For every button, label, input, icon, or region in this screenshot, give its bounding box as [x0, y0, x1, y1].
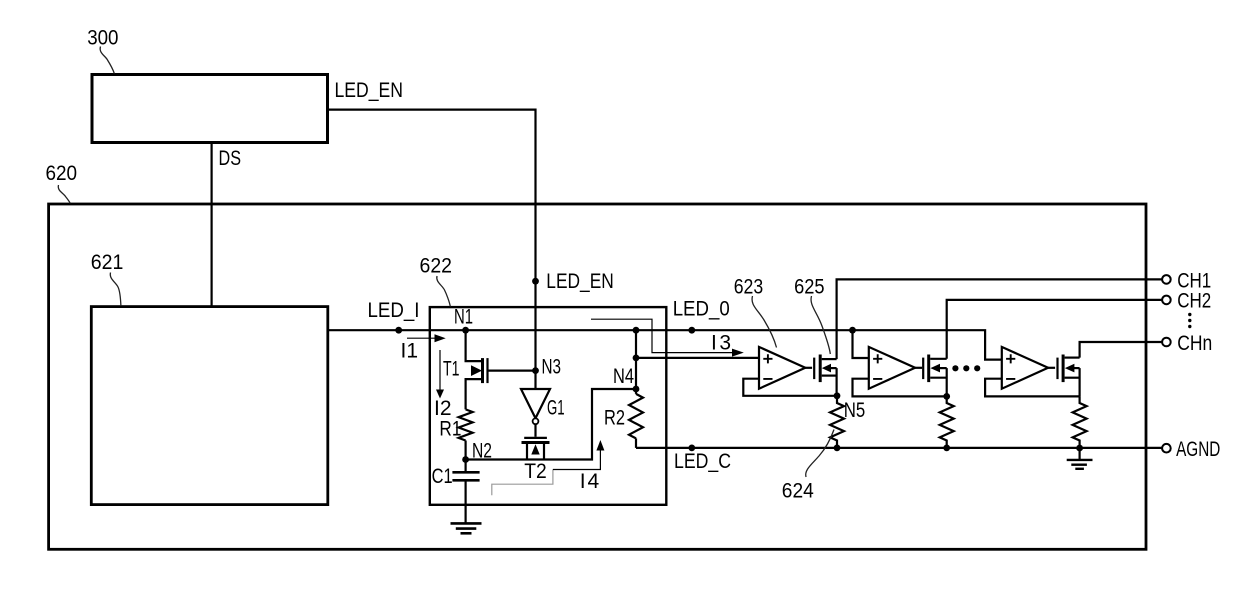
- node N1: [462, 327, 469, 334]
- wire R1 to N2: [465, 441, 467, 460]
- wire Q1 drain to CH1: [837, 279, 1163, 359]
- op-amp U2: [869, 347, 915, 389]
- svg-text:623: 623: [734, 276, 764, 299]
- leader line for 620: [58, 185, 70, 203]
- terminal CH1: [1162, 275, 1171, 284]
- wire U1 output to Q1 gate: [805, 367, 812, 369]
- node N3: [532, 367, 539, 374]
- wire LED_C / AGND rail: [636, 447, 1162, 449]
- terminal CH2: [1162, 296, 1171, 305]
- resistor R1: [459, 409, 473, 440]
- svg-text:I1: I1: [401, 340, 419, 363]
- svg-text:LED_C: LED_C: [674, 450, 731, 473]
- svg-text:CHn: CHn: [1177, 332, 1212, 355]
- wire LED_EN (300 right edge, right then down to G1 input): [328, 110, 536, 389]
- block 300: [92, 75, 328, 143]
- resistor R2: [629, 394, 643, 439]
- op-amp U1 (623): [759, 347, 805, 389]
- vertical ellipsis: [1188, 313, 1191, 316]
- node dot branch to op-amp U2: [849, 327, 856, 334]
- block 622: [430, 307, 667, 505]
- svg-text:R1: R1: [439, 417, 461, 440]
- block 621: [91, 307, 327, 505]
- svg-text:N4: N4: [613, 365, 634, 388]
- transistor T2: [524, 437, 547, 439]
- node dot resistor 624 to AGND rail: [834, 445, 841, 452]
- wire G1 output to T2 gate: [534, 424, 536, 437]
- svg-text:G1: G1: [547, 397, 565, 420]
- wire Qn source junction: [1078, 368, 1080, 396]
- ellipsis dots between stages: [952, 365, 958, 371]
- transistor Q2: [922, 358, 924, 380]
- svg-text:LED_0: LED_0: [673, 298, 730, 321]
- svg-text:622: 622: [420, 255, 453, 278]
- node dot plus-input branch: [633, 355, 640, 362]
- wire U1 feedback (minus input to N5): [743, 379, 837, 396]
- terminal CHn: [1162, 338, 1171, 347]
- wire N2 rail to N4: [466, 389, 636, 460]
- svg-text:I4: I4: [580, 470, 600, 493]
- leader line for 624: [806, 430, 834, 478]
- leader line for 625: [811, 296, 830, 354]
- wire Q2 drain to CH2: [947, 300, 1162, 359]
- leader line for 300: [100, 47, 114, 74]
- wire Un output to Qn gate: [1048, 367, 1055, 369]
- svg-text:N5: N5: [844, 399, 866, 422]
- node dot on LED_I wire: [395, 327, 402, 334]
- svg-text:R2: R2: [604, 407, 625, 430]
- op-amp Un: [1002, 347, 1048, 389]
- svg-text:C1: C1: [432, 465, 453, 488]
- current arrow I1: [407, 337, 435, 339]
- svg-text:CH2: CH2: [1177, 290, 1211, 313]
- leader line for 623: [752, 296, 776, 348]
- wire Q1 source to N5: [835, 368, 837, 396]
- ground below Qn resistor: [1078, 448, 1080, 460]
- wire Q2 source junction: [946, 368, 948, 396]
- wire U2 feedback: [853, 379, 947, 397]
- node N5: [834, 392, 841, 399]
- leader line for 621: [110, 273, 121, 306]
- svg-text:N3: N3: [542, 356, 562, 379]
- ground below C1: [451, 522, 482, 525]
- svg-text:LED_I: LED_I: [368, 299, 420, 322]
- transistor Qn: [1056, 358, 1058, 380]
- leader line for 622: [437, 276, 451, 307]
- block 620 (outer driver box): [49, 204, 1146, 549]
- wire R2 bottom to LED_C rail: [635, 438, 637, 448]
- wire T1 gate to N3: [488, 370, 536, 372]
- svg-text:I3: I3: [711, 332, 731, 355]
- svg-text:621: 621: [91, 251, 124, 274]
- svg-text:AGND: AGND: [1176, 438, 1220, 461]
- node N4: [633, 386, 640, 393]
- svg-text:620: 620: [46, 162, 78, 185]
- svg-text:LED_EN: LED_EN: [335, 79, 404, 102]
- current arrow I2: [439, 350, 441, 390]
- resistor 624: [830, 396, 844, 448]
- node dot resistor to AGND rail: [1076, 445, 1083, 452]
- svg-text:T2: T2: [524, 460, 547, 483]
- svg-text:624: 624: [782, 480, 814, 503]
- transistor Q1 (625): [813, 358, 815, 380]
- node dot LED_C: [688, 445, 695, 452]
- node dot Q2 source junction: [943, 393, 950, 400]
- resistor below Q2: [940, 396, 954, 448]
- wire N4 vertical: [635, 330, 637, 394]
- node dot resistor to AGND rail: [943, 445, 950, 452]
- resistor below Qn: [1073, 396, 1087, 448]
- wire U2 output to Q2 gate: [915, 367, 922, 369]
- transistor T1: [466, 330, 481, 361]
- current arrow I3: [591, 319, 732, 352]
- terminal AGND: [1162, 444, 1171, 453]
- inverter G1: [521, 389, 550, 418]
- wire U2 plus input: [853, 330, 869, 358]
- svg-text:DS: DS: [219, 147, 242, 170]
- svg-text:300: 300: [87, 26, 118, 49]
- svg-text:LED_EN: LED_EN: [546, 270, 614, 293]
- svg-text:T1: T1: [443, 358, 460, 381]
- wire Un feedback: [985, 379, 1080, 397]
- wire plus input of first op-amp from N4 vertical: [636, 357, 759, 359]
- svg-text:625: 625: [794, 276, 825, 299]
- wire Qn drain to CHn: [1080, 342, 1163, 358]
- current arrow I4: [492, 470, 553, 496]
- node N2: [462, 456, 469, 463]
- wire DS (300 to 621): [211, 143, 213, 307]
- capacitor C1: [465, 460, 467, 473]
- svg-text:N1: N1: [454, 306, 473, 329]
- node dot LED_0 on main rail: [688, 327, 695, 334]
- node dot LED_EN on vertical wire: [532, 278, 539, 285]
- wire LED_I main horizontal rail into third op-amp plus input: [328, 330, 1002, 359]
- node dot N4 branch on main rail: [633, 327, 640, 334]
